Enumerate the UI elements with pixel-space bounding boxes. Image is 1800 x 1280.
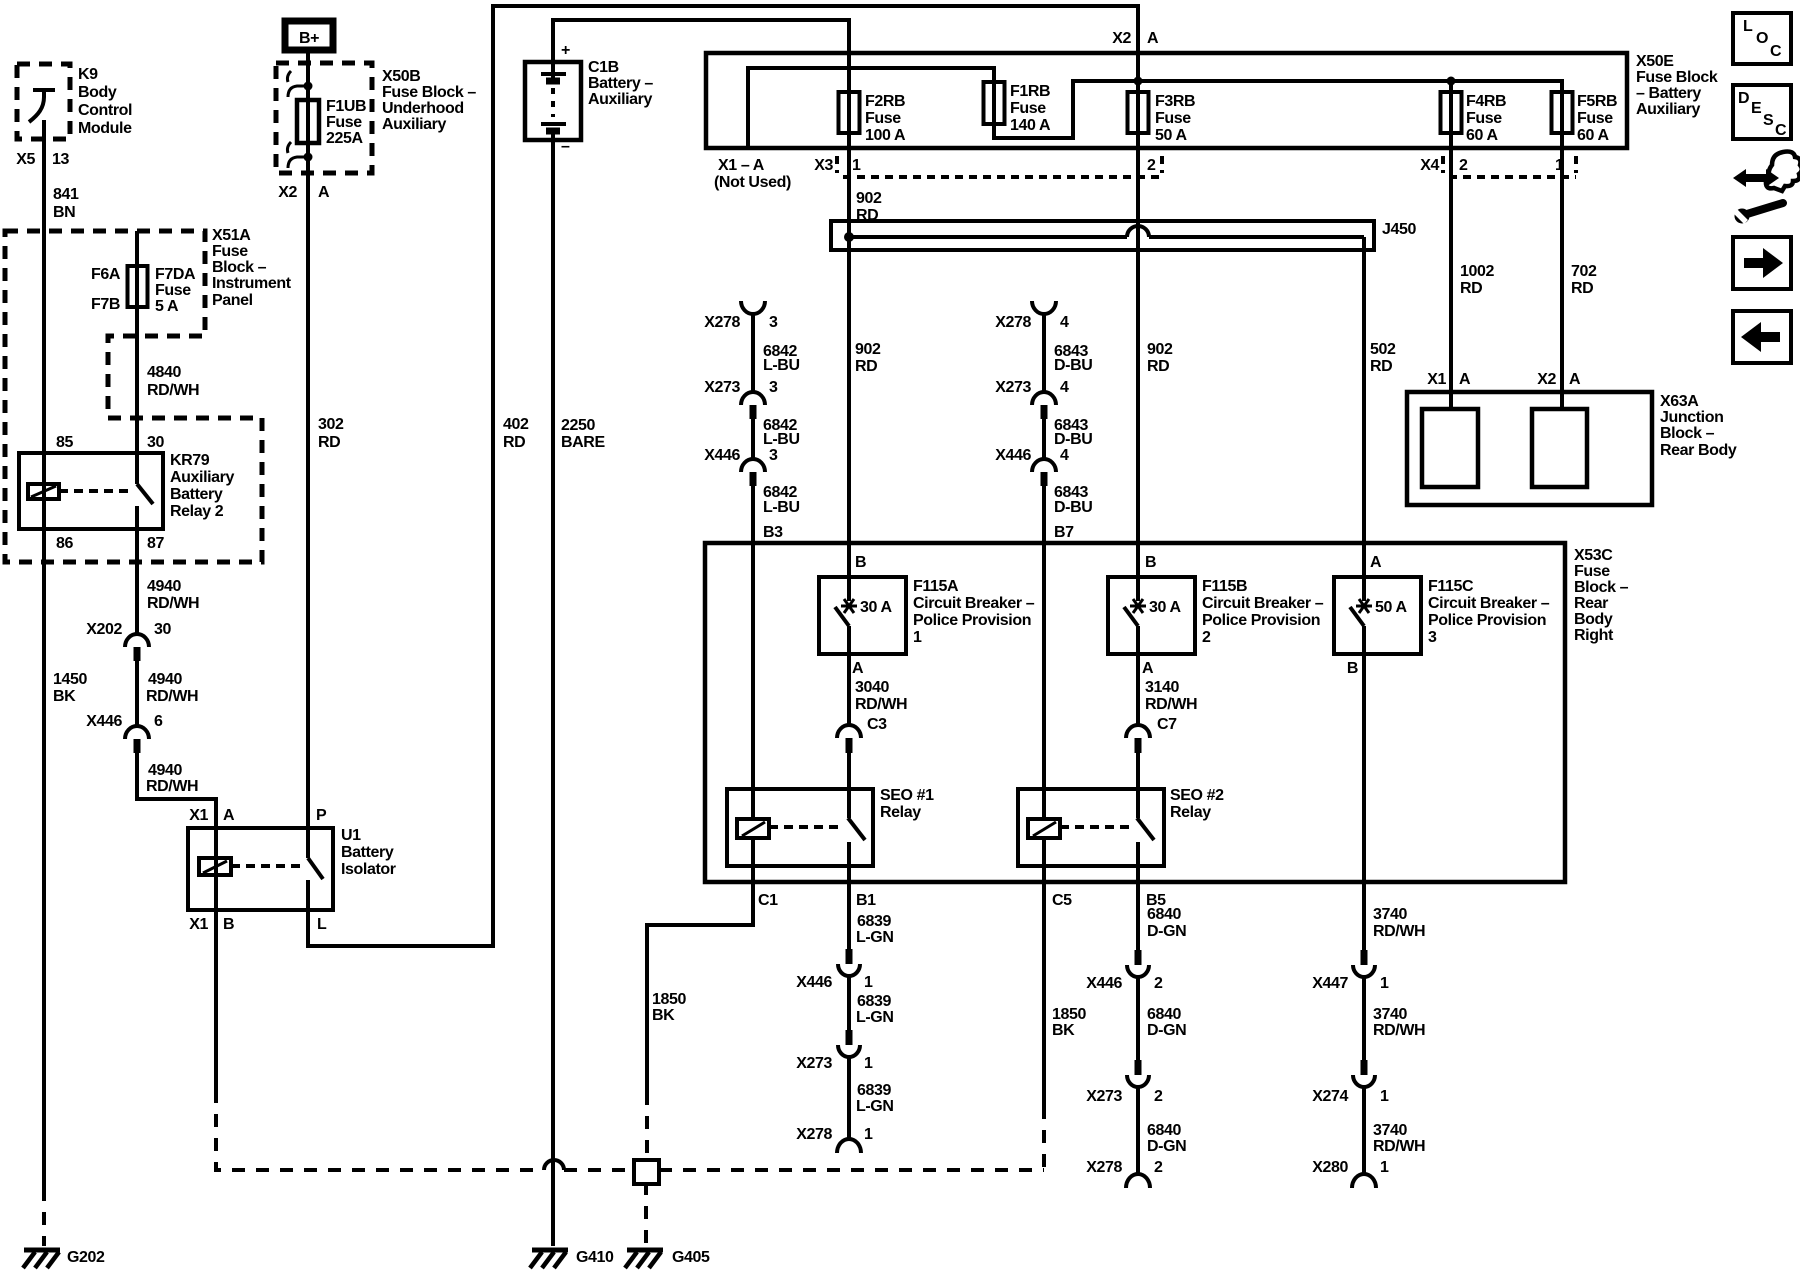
- X53C fuse block box: [705, 543, 1565, 882]
- svg-text:60 A: 60 A: [1466, 127, 1498, 144]
- SEO #1 Relay box: [727, 789, 873, 866]
- SEO #1 mechanical link: [769, 825, 842, 829]
- svg-text:X63A: X63A: [1660, 393, 1699, 410]
- KR79 coil: [28, 484, 59, 499]
- X51A fuse block / KR79 relay dashed outline: [5, 231, 262, 562]
- F115A breaker symbol: [835, 599, 892, 654]
- svg-text:6839: 6839: [857, 993, 891, 1010]
- wire 6839 L-GN from B1: [847, 866, 851, 949]
- nav icon toggle tool: [1733, 152, 1800, 224]
- svg-text:2: 2: [1154, 1159, 1163, 1176]
- svg-text:O: O: [1756, 30, 1768, 47]
- svg-text:RD/WH: RD/WH: [1145, 696, 1197, 713]
- wire 6842 L-BU: [751, 314, 755, 391]
- U1 pin labels X1 A / X1 B / P / L: [189, 807, 327, 933]
- svg-text:L-BU: L-BU: [763, 431, 800, 448]
- wire from SEO2 coil out C5: [1042, 838, 1046, 1106]
- svg-text:1850: 1850: [1052, 1006, 1086, 1023]
- svg-text:D-GN: D-GN: [1147, 923, 1186, 940]
- wire 6840 D-GN: [1136, 1088, 1140, 1174]
- svg-text:4940: 4940: [147, 578, 181, 595]
- KR79 relay box: [19, 453, 163, 529]
- svg-text:3: 3: [769, 314, 778, 331]
- svg-text:1: 1: [1380, 1088, 1389, 1105]
- wire 3740 RD/WH: [1362, 1088, 1366, 1174]
- X63A pin labels: [1427, 371, 1581, 388]
- svg-text:D-GN: D-GN: [1147, 1022, 1186, 1039]
- X63A cavity X2: [1532, 409, 1587, 487]
- dashed 1850 BK to splice square: [645, 1092, 649, 1158]
- svg-text:X1: X1: [189, 807, 208, 824]
- svg-text:S: S: [1763, 112, 1774, 129]
- svg-text:30 A: 30 A: [860, 599, 892, 616]
- svg-text:B: B: [1145, 554, 1156, 571]
- svg-text:Police Provision: Police Provision: [913, 612, 1031, 629]
- svg-text:C1B: C1B: [588, 59, 619, 76]
- wire 6843 D-BU: [1042, 314, 1046, 391]
- svg-text:RD: RD: [855, 358, 877, 375]
- connector X446 pin 3: [704, 447, 778, 486]
- svg-text:F4RB: F4RB: [1466, 93, 1506, 110]
- svg-text:BK: BK: [652, 1007, 675, 1024]
- svg-text:B: B: [223, 916, 234, 933]
- svg-text:SEO #2: SEO #2: [1170, 787, 1224, 804]
- svg-text:Auxiliary: Auxiliary: [382, 116, 446, 133]
- svg-text:Isolator: Isolator: [341, 861, 396, 878]
- connector X274 pin 1: [1312, 1060, 1389, 1105]
- svg-text:2: 2: [1154, 975, 1163, 992]
- svg-text:1002: 1002: [1460, 263, 1494, 280]
- circuit breaker F115B box: [1108, 577, 1195, 654]
- wire dashed ground run from U1 X1-B: [216, 1090, 544, 1170]
- wire label 702 RD: [1571, 263, 1597, 297]
- svg-text:F115A: F115A: [913, 578, 959, 595]
- wire label 302 RD: [318, 416, 344, 451]
- svg-text:Fuse: Fuse: [326, 114, 362, 131]
- svg-text:Rear Body: Rear Body: [1660, 442, 1737, 459]
- clip hook upper: [287, 71, 312, 97]
- wire label 3740 RD/WH: [1373, 1006, 1425, 1039]
- battery plates: [541, 74, 566, 131]
- svg-text:30: 30: [147, 434, 164, 451]
- svg-text:Police Provision: Police Provision: [1202, 612, 1320, 629]
- svg-text:RD/WH: RD/WH: [146, 688, 198, 705]
- svg-text:RD: RD: [1460, 280, 1482, 297]
- svg-text:X2: X2: [1537, 371, 1556, 388]
- svg-text:A: A: [1370, 554, 1382, 571]
- svg-text:Panel: Panel: [212, 292, 253, 309]
- svg-text:X447: X447: [1312, 975, 1348, 992]
- dashed ground run continues to C5 branch: [659, 1168, 1044, 1172]
- svg-text:G405: G405: [672, 1249, 710, 1266]
- svg-text:C7: C7: [1157, 716, 1177, 733]
- svg-text:Battery: Battery: [170, 486, 223, 503]
- svg-text:X50E: X50E: [1636, 53, 1674, 70]
- svg-text:A: A: [1459, 371, 1471, 388]
- svg-text:2: 2: [1459, 157, 1468, 174]
- svg-text:1: 1: [1555, 157, 1564, 174]
- connector X278 pin 2 run-end cup: [1086, 1159, 1163, 1188]
- svg-text:302: 302: [318, 416, 344, 433]
- svg-text:Relay: Relay: [1170, 804, 1211, 821]
- svg-text:SEO #1: SEO #1: [880, 787, 934, 804]
- wire label 6840 D-GN: [1147, 906, 1186, 940]
- breaker bottom pin labels A A B: [852, 660, 1358, 677]
- svg-text:3: 3: [769, 447, 778, 464]
- wire label 6840 D-GN: [1147, 1122, 1186, 1155]
- wire 3740 RD/WH: [1362, 978, 1366, 1060]
- X50E internal bus wiring: [748, 68, 1562, 409]
- svg-text:3740: 3740: [1373, 906, 1407, 923]
- svg-text:30: 30: [154, 621, 171, 638]
- svg-text:2: 2: [1147, 157, 1156, 174]
- svg-text:1: 1: [1380, 1159, 1389, 1176]
- svg-text:3: 3: [1428, 629, 1437, 646]
- svg-text:Police Provision: Police Provision: [1428, 612, 1546, 629]
- svg-text:X446: X446: [796, 974, 832, 991]
- X50E label: [1636, 53, 1718, 118]
- svg-text:Block –: Block –: [212, 259, 267, 276]
- svg-text:Fuse: Fuse: [212, 243, 248, 260]
- ground G202: [23, 1249, 105, 1268]
- svg-text:X53C: X53C: [1574, 547, 1613, 564]
- svg-text:902: 902: [855, 341, 881, 358]
- F115A label: [913, 578, 1035, 646]
- svg-text:4: 4: [1060, 314, 1069, 331]
- U1 label: [341, 827, 396, 878]
- svg-text:F1RB: F1RB: [1010, 83, 1050, 100]
- svg-text:L-BU: L-BU: [763, 357, 800, 374]
- svg-text:4940: 4940: [148, 762, 182, 779]
- nav icon back arrow: [1733, 311, 1791, 363]
- wire 2250 BARE from battery - down to G410: [551, 130, 555, 1246]
- breaker top pin labels B B A: [855, 554, 1382, 571]
- B+ power feed symbol: [285, 21, 333, 50]
- circuit breaker F115C box: [1334, 577, 1421, 654]
- svg-text:X50B: X50B: [382, 68, 420, 85]
- wire label 902 RD below X3-1: [856, 190, 882, 224]
- svg-text:X1 – A: X1 – A: [718, 157, 765, 174]
- svg-text:RD: RD: [1571, 280, 1593, 297]
- F3RB label: [1155, 93, 1195, 144]
- wire label 1450 BK: [53, 671, 87, 705]
- X53C label: [1574, 547, 1629, 644]
- svg-text:X278: X278: [995, 314, 1031, 331]
- svg-text:X1: X1: [189, 916, 208, 933]
- svg-text:5 A: 5 A: [155, 298, 179, 315]
- J450 splice pack box: [831, 221, 1374, 250]
- svg-text:RD: RD: [318, 434, 340, 451]
- svg-text:4: 4: [1060, 447, 1069, 464]
- svg-text:30 A: 30 A: [1149, 599, 1181, 616]
- svg-text:87: 87: [147, 535, 164, 552]
- svg-text:B+: B+: [299, 30, 319, 47]
- svg-text:F115C: F115C: [1428, 578, 1474, 595]
- svg-text:Fuse: Fuse: [1466, 110, 1502, 127]
- wire 6842 L-BU into X53C pin B3: [751, 486, 755, 819]
- svg-text:A: A: [318, 184, 330, 201]
- KR79 mechanical link: [59, 489, 131, 493]
- svg-text:X2: X2: [278, 184, 297, 201]
- svg-text:Auxiliary: Auxiliary: [1636, 101, 1700, 118]
- svg-text:X273: X273: [995, 379, 1031, 396]
- svg-text:D-BU: D-BU: [1054, 357, 1092, 374]
- wire label 6842 L-BU: [763, 343, 800, 374]
- connector X2 pin A labels: [278, 184, 330, 201]
- wire label 6843 D-BU: [1054, 484, 1092, 516]
- connector X2 pin A at fuse block top: [1112, 30, 1159, 47]
- connector X278 pin 1 run-end cup: [796, 1126, 873, 1153]
- svg-text:4840: 4840: [147, 364, 181, 381]
- F6A / F7B pin labels: [91, 266, 121, 313]
- svg-text:X274: X274: [1312, 1088, 1348, 1105]
- svg-text:BN: BN: [53, 204, 75, 221]
- connector X446 pin 1: [796, 949, 873, 991]
- svg-text:100 A: 100 A: [865, 127, 906, 144]
- X53C bottom pin labels: [758, 892, 1166, 909]
- dashed ground run continues: [564, 1168, 634, 1172]
- svg-text:C: C: [1770, 43, 1782, 60]
- svg-text:Auxiliary: Auxiliary: [170, 469, 234, 486]
- connector X202 pin 30: [86, 621, 171, 661]
- svg-text:U1: U1: [341, 827, 361, 844]
- svg-text:4: 4: [1060, 379, 1069, 396]
- svg-text:X446: X446: [995, 447, 1031, 464]
- svg-text:Circuit Breaker –: Circuit Breaker –: [1428, 595, 1550, 612]
- wire 6840 D-GN from B5: [1136, 866, 1140, 950]
- wire 6839 L-GN: [847, 977, 851, 1030]
- svg-text:B3: B3: [763, 524, 783, 541]
- svg-text:RD/WH: RD/WH: [147, 595, 199, 612]
- wire label 6839 L-GN: [856, 1082, 894, 1115]
- svg-text:RD/WH: RD/WH: [146, 778, 198, 795]
- F4RB label: [1466, 93, 1506, 144]
- fuse F4RB: [1441, 92, 1462, 133]
- connector X4 labels and dashes: [1420, 156, 1576, 177]
- svg-text:4940: 4940: [148, 671, 182, 688]
- svg-text:Block –: Block –: [1660, 425, 1715, 442]
- wire 6839 L-GN: [847, 1058, 851, 1139]
- J450 internal bus: [849, 226, 1364, 237]
- wire 6843 D-BU: [1042, 419, 1046, 458]
- svg-text:–: –: [561, 138, 570, 155]
- svg-text:3140: 3140: [1145, 679, 1179, 696]
- svg-text:Fuse: Fuse: [155, 282, 191, 299]
- svg-text:841: 841: [53, 186, 79, 203]
- svg-text:X3: X3: [814, 157, 833, 174]
- svg-text:RD: RD: [503, 434, 525, 451]
- connector X446 pin 4: [995, 447, 1069, 486]
- svg-text:C1: C1: [758, 892, 778, 909]
- K9 Body Control Module dashed box: [17, 64, 70, 139]
- svg-text:L: L: [1743, 18, 1753, 35]
- svg-text:RD: RD: [1147, 358, 1169, 375]
- wire label 1850 BK: [652, 991, 686, 1024]
- svg-text:Right: Right: [1574, 627, 1614, 644]
- fuse F3RB: [1128, 92, 1149, 133]
- svg-text:85: 85: [56, 434, 73, 451]
- svg-text:G410: G410: [576, 1249, 614, 1266]
- svg-text:X446: X446: [704, 447, 740, 464]
- connector C7: [1126, 716, 1177, 753]
- connector X280 pin 1 run-end cup: [1312, 1159, 1389, 1188]
- wire 6842 L-BU: [751, 419, 755, 458]
- wire 3040 from F115A to C3: [847, 654, 851, 725]
- wire label 6843 D-BU: [1054, 417, 1092, 448]
- wire 4940 RD/WH between X202 and X446: [135, 661, 139, 726]
- X63A junction block box: [1407, 392, 1652, 505]
- svg-text:13: 13: [52, 151, 69, 168]
- svg-text:F7B: F7B: [91, 296, 120, 313]
- wire 502 RD from J450 to F115C: [1362, 237, 1366, 601]
- svg-text:Instrument: Instrument: [212, 275, 292, 292]
- svg-text:902: 902: [1147, 341, 1173, 358]
- svg-text:F3RB: F3RB: [1155, 93, 1195, 110]
- svg-text:X1: X1: [1427, 371, 1446, 388]
- svg-text:402: 402: [503, 416, 529, 433]
- battery C1B box: [525, 62, 581, 140]
- svg-text:L-GN: L-GN: [856, 929, 894, 946]
- wire label 1002 RD: [1460, 263, 1494, 297]
- SEO #1 switch blade: [848, 753, 865, 866]
- wire label 502 RD: [1370, 341, 1396, 375]
- svg-text:Fuse: Fuse: [865, 110, 901, 127]
- svg-text:50 A: 50 A: [1155, 127, 1187, 144]
- svg-text:X278: X278: [1086, 1159, 1122, 1176]
- svg-text:3740: 3740: [1373, 1006, 1407, 1023]
- wire dashed to G202: [42, 1188, 46, 1246]
- connector X273 pin 1: [796, 1030, 873, 1072]
- svg-text:Fuse: Fuse: [1577, 110, 1613, 127]
- F7DA label: [155, 266, 196, 315]
- F115C breaker symbol: [1350, 599, 1407, 654]
- connector C3: [837, 716, 887, 753]
- svg-text:X2: X2: [1112, 30, 1131, 47]
- KR79 switch blade: [137, 484, 153, 529]
- svg-text:Fuse: Fuse: [1010, 100, 1046, 117]
- wire label 4940 RD/WH: [146, 762, 198, 795]
- svg-text:L-GN: L-GN: [856, 1098, 894, 1115]
- wire label 3740 RD/WH: [1373, 1122, 1425, 1155]
- svg-text:C: C: [1775, 122, 1787, 139]
- wire label 1850 BK right: [1052, 1006, 1086, 1039]
- svg-text:K9: K9: [78, 66, 98, 83]
- wire label 4940 RD/WH: [147, 578, 199, 612]
- wire label 3040 RD/WH: [855, 679, 907, 713]
- svg-text:6840: 6840: [1147, 1006, 1181, 1023]
- svg-text:A: A: [1569, 371, 1581, 388]
- svg-text:3: 3: [769, 379, 778, 396]
- svg-text:X202: X202: [86, 621, 122, 638]
- svg-text:RD/WH: RD/WH: [1373, 923, 1425, 940]
- F1UB label: [326, 98, 366, 147]
- connector X278 pin 3 run-start cup: [704, 301, 778, 331]
- connector X273 pin 4: [995, 379, 1069, 419]
- wire 6843 D-BU into X53C pin B7: [1042, 486, 1046, 819]
- SEO #2 coil: [1028, 819, 1060, 838]
- svg-text:6839: 6839: [857, 1082, 891, 1099]
- U1 mechanical link: [231, 864, 303, 868]
- svg-text:X273: X273: [704, 379, 740, 396]
- svg-text:2: 2: [1202, 629, 1211, 646]
- fuse F1RB: [984, 82, 1005, 124]
- svg-text:RD/WH: RD/WH: [855, 696, 907, 713]
- svg-text:F7DA: F7DA: [155, 266, 196, 283]
- svg-text:F2RB: F2RB: [865, 93, 905, 110]
- junction node at F3RB branch: [1134, 77, 1143, 86]
- connector X446 pin 6: [86, 713, 163, 753]
- svg-text:Battery: Battery: [341, 844, 394, 861]
- svg-text:X280: X280: [1312, 1159, 1348, 1176]
- svg-text:Fuse Block: Fuse Block: [1636, 69, 1718, 86]
- wire 3140 from F115B to C7: [1136, 654, 1140, 725]
- svg-text:225A: 225A: [326, 130, 363, 147]
- U1 switch blade: [308, 858, 323, 879]
- F115B label: [1202, 578, 1324, 646]
- X1-A not used label: [714, 157, 791, 191]
- J450 junction dot: [844, 232, 854, 242]
- F5RB label: [1577, 93, 1617, 144]
- connector X273 pin 2: [1086, 1060, 1163, 1105]
- X63A cavity X1: [1422, 409, 1478, 487]
- svg-text:A: A: [852, 660, 864, 677]
- wire label 6843 D-BU: [1054, 343, 1092, 374]
- nav icon LOC: [1733, 13, 1791, 64]
- wire labels 902 RD columns: [855, 341, 1173, 375]
- svg-text:X278: X278: [796, 1126, 832, 1143]
- fuse F2RB: [839, 92, 860, 133]
- svg-text:140 A: 140 A: [1010, 117, 1051, 134]
- wire 402 RD loop from U1 L up and over to X2-A: [308, 6, 1138, 946]
- svg-text:C5: C5: [1052, 892, 1072, 909]
- U1 Battery Isolator box: [188, 828, 333, 910]
- svg-text:6840: 6840: [1147, 1122, 1181, 1139]
- svg-text:KR79: KR79: [170, 452, 210, 469]
- svg-text:G202: G202: [67, 1249, 105, 1266]
- svg-text:B7: B7: [1054, 524, 1074, 541]
- svg-text:D-BU: D-BU: [1054, 499, 1092, 516]
- svg-text:X273: X273: [796, 1055, 832, 1072]
- inline splice square: [634, 1160, 659, 1184]
- svg-text:A: A: [1142, 660, 1154, 677]
- svg-text:902: 902: [856, 190, 882, 207]
- svg-text:Module: Module: [78, 120, 132, 137]
- wire label 6842 L-BU: [763, 484, 800, 516]
- svg-text:D: D: [1738, 90, 1749, 107]
- wire 4840 RD/WH through F7DA: [135, 231, 139, 484]
- SEO #2 Relay box: [1018, 789, 1164, 866]
- hop over 2250 wire: [544, 1160, 564, 1170]
- svg-text:(Not Used): (Not Used): [714, 174, 791, 191]
- connector X3 labels and dashes: [814, 156, 1162, 177]
- svg-text:– Battery: – Battery: [1636, 85, 1701, 102]
- wire 6840 D-GN: [1136, 978, 1140, 1060]
- connector X278 pin 4 run-start cup: [995, 301, 1069, 331]
- dashed C5 to ground run: [1042, 1106, 1046, 1170]
- svg-text:1: 1: [864, 1055, 873, 1072]
- svg-text:702: 702: [1571, 263, 1597, 280]
- svg-text:502: 502: [1370, 341, 1396, 358]
- svg-text:RD/WH: RD/WH: [1373, 1022, 1425, 1039]
- circuit breaker F115A box: [819, 577, 906, 654]
- svg-text:Fuse: Fuse: [1155, 110, 1191, 127]
- svg-text:F1UB: F1UB: [326, 98, 366, 115]
- svg-text:Auxiliary: Auxiliary: [588, 91, 652, 108]
- svg-text:Underhood: Underhood: [382, 100, 464, 117]
- svg-text:Control: Control: [78, 102, 132, 119]
- svg-text:X5: X5: [16, 151, 35, 168]
- svg-text:+: +: [561, 42, 570, 59]
